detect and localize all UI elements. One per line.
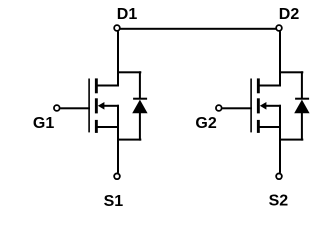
wire Q2 diode cathode drop: [301, 71, 303, 99]
svg-text:G1: G1: [33, 115, 54, 132]
wire Q2 body-to-source drop: [279, 105, 281, 129]
diode D-Q1 triangle: [132, 100, 147, 114]
svg-text:D1: D1: [117, 6, 138, 23]
svg-text:D2: D2: [279, 6, 300, 23]
terminal D1: [114, 25, 120, 31]
wire Q2 diode anode branch: [279, 139, 303, 141]
terminal S2: [276, 173, 282, 179]
transistor Q2 channel bar source: [257, 120, 260, 133]
wire S2 source lead: [279, 127, 281, 173]
wire Q1 diode cathode drop: [139, 71, 141, 99]
wire Q2 source connection: [258, 126, 281, 128]
wire Q2 diode anode drop: [301, 112, 303, 141]
terminal D2: [276, 25, 282, 31]
transistor Q2 body arrow: [260, 102, 267, 110]
diode D-Q2 cathode bar: [295, 98, 309, 100]
wire D2 drain lead: [279, 31, 281, 86]
wire Q2 diode cathode branch: [279, 71, 303, 73]
wire G2 gate lead: [222, 107, 252, 109]
terminal G1: [54, 105, 60, 111]
transistor Q2 gate line: [250, 79, 252, 133]
transistor Q1 channel bar body: [95, 98, 98, 113]
wire Q2 drain connection: [258, 85, 281, 87]
wire Q1 diode cathode branch: [117, 71, 141, 73]
wire D1-D2 top bus: [117, 28, 279, 30]
diode D-Q1 cathode bar: [133, 98, 147, 100]
wire Q1 body connection: [104, 105, 120, 107]
transistor Q1 channel bar source: [95, 120, 98, 133]
svg-text:G2: G2: [195, 115, 216, 132]
wire Q2 body connection: [266, 105, 282, 107]
wire Q1 body-to-source drop: [117, 105, 119, 129]
transistor Q2 channel bar drain: [257, 78, 260, 93]
svg-text:S1: S1: [104, 193, 124, 210]
svg-text:S2: S2: [269, 193, 289, 210]
terminal S1: [114, 173, 120, 179]
transistor Q1 gate line: [88, 79, 90, 133]
terminal G2: [216, 105, 222, 111]
wire Q1 drain connection: [96, 85, 119, 87]
wire Q1 source connection: [96, 126, 119, 128]
wire S1 source lead: [117, 127, 119, 173]
wire Q1 diode anode branch: [117, 139, 141, 141]
wire Q1 diode anode drop: [139, 112, 141, 141]
wire G1 gate lead: [60, 107, 90, 109]
diode D-Q2 triangle: [294, 100, 309, 114]
transistor Q2 channel bar body: [257, 98, 260, 113]
transistor Q1 channel bar drain: [95, 78, 98, 93]
wire D1 drain lead: [117, 31, 119, 86]
transistor Q1 body arrow: [98, 102, 105, 110]
